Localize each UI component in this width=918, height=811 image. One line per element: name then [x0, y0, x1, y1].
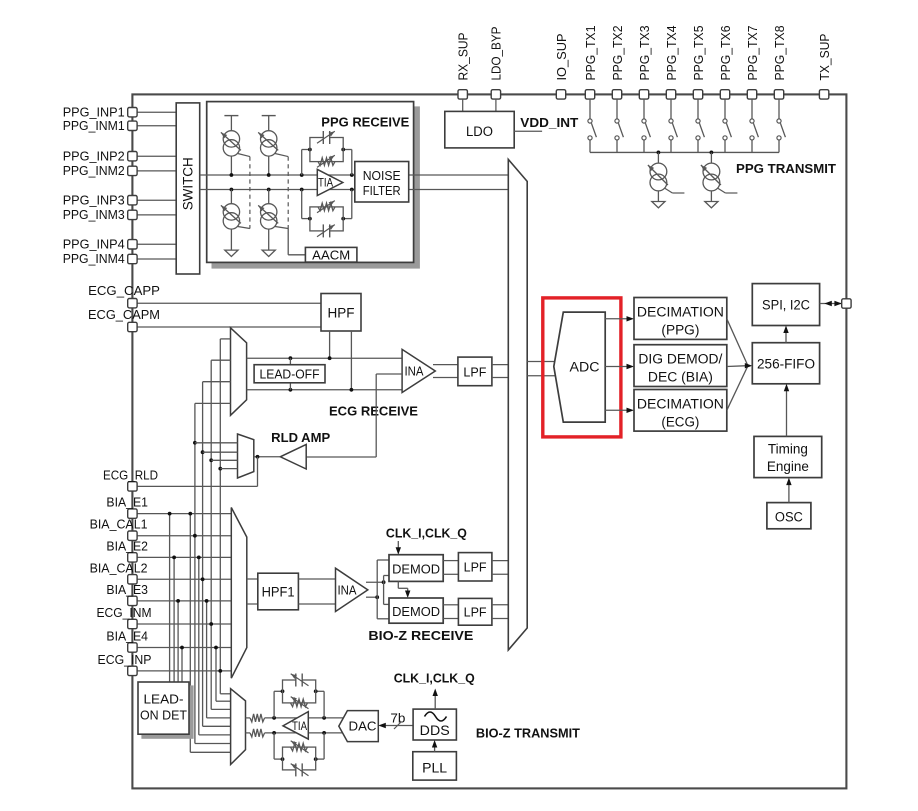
node junction P [230, 173, 234, 177]
switch PPG_TX4 [670, 99, 672, 119]
pin IO_SUP [556, 90, 565, 99]
capacitor variable Ca [296, 674, 302, 687]
wire TX line a2 [265, 717, 344, 719]
node junction P [267, 173, 271, 177]
node LEADOFF-M [289, 388, 293, 392]
wire bus to LED current source [657, 152, 659, 163]
pin TX_SUP [819, 90, 828, 99]
op-amp RLD AMP [280, 444, 306, 469]
current source PPG input bottom [261, 204, 277, 220]
wire stub to BIOZ TX mux [216, 700, 231, 702]
svg-text:PLL: PLL [422, 761, 448, 776]
svg-text:DECIMATION: DECIMATION [637, 397, 724, 412]
wire stub to BIOZ TX mux [220, 693, 230, 695]
node TIA in a [272, 716, 276, 720]
svg-text:BIO-Z RECEIVE: BIO-Z RECEIVE [368, 628, 473, 643]
wire interconnect column [219, 339, 221, 694]
resistor variable Rf M [318, 203, 335, 211]
svg-text:BIA_E2: BIA_E2 [106, 538, 148, 553]
wire PPG transmit bus [590, 151, 779, 153]
current source tail [238, 227, 250, 229]
wire PPG_INP4 to switch [137, 243, 177, 245]
capacitor variable Cf M [323, 224, 329, 237]
node RLD tap [209, 458, 213, 462]
wire ECG line P [247, 357, 403, 359]
block Timing Engine [754, 436, 822, 477]
pin PPG_TX8 [774, 90, 783, 99]
svg-text:ECG RECEIVE: ECG RECEIVE [329, 404, 418, 419]
node [176, 599, 180, 603]
wire bottom source to ground [230, 229, 232, 250]
node [214, 646, 218, 650]
feedback network P frame [310, 138, 343, 162]
ground [652, 202, 665, 208]
resistor isolation Rb [250, 729, 265, 737]
ground [225, 250, 238, 256]
node TIA input P [300, 173, 304, 177]
wire stub to ECG mux [195, 402, 231, 404]
generator DDS [413, 709, 456, 740]
wire PPG_INP1 to switch [137, 111, 177, 113]
current source tail [238, 154, 250, 157]
wire BIA_E2 row [137, 556, 232, 558]
wire DEC ECG to FIFO [727, 367, 748, 411]
demodulator DEMOD I [389, 555, 443, 582]
wire fb left a [273, 691, 275, 718]
wire stub to RLD mux [203, 451, 238, 453]
wire PLL to DDS [434, 744, 436, 751]
wire stub to BIOZ TX mux [211, 708, 230, 710]
node [168, 512, 172, 516]
svg-text:(PPG): (PPG) [661, 323, 699, 338]
svg-text:BIA_E3: BIA_E3 [106, 582, 148, 597]
node junction M [230, 188, 234, 192]
filter DECIMATION (ECG) [634, 390, 727, 432]
mux BIA input [231, 508, 247, 679]
svg-text:PPG_TX6: PPG_TX6 [718, 26, 733, 81]
wire stub to ECG mux [211, 359, 230, 361]
svg-text:TIA: TIA [292, 719, 307, 733]
wire stub to BIOZ TX mux [190, 751, 230, 753]
wire mux to HPF1 a [247, 578, 258, 580]
wire INA out top [366, 581, 384, 583]
node out bot [375, 595, 379, 599]
current source PPG LED driver [650, 163, 667, 180]
wire ECG_INM row [137, 623, 232, 625]
node TIA in b [272, 731, 276, 735]
pin BIA_E3 [128, 596, 137, 605]
svg-text:PPG_INM2: PPG_INM2 [63, 163, 125, 178]
wire BIA_E1 row [137, 513, 232, 515]
svg-text:PPG_TX3: PPG_TX3 [637, 26, 652, 81]
wire electrode to lead-on det [177, 601, 179, 682]
node RLD tap [201, 450, 205, 454]
converter ADC [554, 312, 605, 422]
node TIA output P [350, 173, 354, 177]
svg-text:BIA_CAL1: BIA_CAL1 [90, 517, 148, 532]
resistor variable Rf P [318, 158, 335, 166]
wire mux to HPF1 b [247, 603, 258, 605]
switch PPG_TX2 [616, 99, 618, 119]
pin PPG_TX2 [612, 90, 621, 99]
switch PPG_TX3 [643, 99, 645, 119]
wire PPG_INP2 to switch [137, 155, 177, 157]
op-amp TIA (PPG) [317, 169, 343, 195]
filter LPF (ECG) [458, 357, 492, 386]
wire mux-ADC b [527, 375, 556, 377]
node [205, 599, 209, 603]
memory 256-FIFO [752, 343, 819, 384]
wire fb left b [273, 733, 275, 759]
current source PPG LED driver [703, 163, 720, 180]
detector LEAD-ON DET shadow [142, 686, 193, 738]
wire split B [383, 576, 385, 605]
mux ADC input [508, 159, 527, 650]
svg-text:ADC: ADC [570, 360, 600, 375]
wire source to line [230, 156, 232, 175]
wire bottom source to ground [268, 229, 270, 250]
wire ECG line M [247, 389, 403, 391]
regulator LDO [445, 111, 514, 147]
pin PPG_TX4 [666, 90, 675, 99]
wire TX line a [246, 717, 251, 719]
svg-text:LDO: LDO [466, 124, 493, 139]
svg-text:LPF: LPF [464, 560, 487, 575]
svg-text:BIO-Z TRANSMIT: BIO-Z TRANSMIT [476, 726, 580, 741]
node TIA out a [322, 716, 326, 720]
resistor variable Ra fb [291, 699, 308, 707]
filter LPF (BIA Q) [458, 598, 492, 625]
wire DEC PPG to FIFO [727, 319, 748, 365]
wire DDS to DAC [384, 725, 413, 727]
node fb M right [341, 217, 345, 221]
pll PLL [413, 752, 457, 780]
node fb M left [308, 217, 312, 221]
svg-text:BIA_E1: BIA_E1 [106, 495, 148, 510]
filter DIG DEMOD/DEC (BIA) [634, 345, 727, 387]
current source PPG input top [223, 131, 239, 147]
pin RX_SUP [458, 90, 467, 99]
svg-text:BIA_E4: BIA_E4 [106, 629, 148, 644]
svg-text:PPG_INP3: PPG_INP3 [63, 192, 125, 207]
arrow into FIFO [745, 363, 753, 368]
svg-text:ECG_INP: ECG_INP [98, 652, 152, 667]
wire electrode to lead-on det [169, 514, 171, 682]
svg-text:RX_SUP: RX_SUP [456, 33, 471, 81]
wire TX line b2 [265, 732, 344, 734]
wire ADC-DEC PPG [605, 318, 629, 320]
node RLD tap [193, 441, 197, 445]
pin ECG_INP [128, 666, 137, 675]
wire RX_SUP to LDO [462, 99, 464, 111]
svg-text:LEAD-: LEAD- [144, 692, 184, 707]
filter DECIMATION (PPG) [634, 298, 727, 340]
ground [262, 250, 275, 256]
svg-text:PPG_INM1: PPG_INM1 [63, 118, 125, 133]
pin PPG_TX1 [585, 90, 594, 99]
wire PPG signal line P [200, 174, 509, 176]
svg-text:INA: INA [338, 583, 358, 597]
wire DEMOD2-LPF b [443, 618, 458, 620]
wire DEMOD1-LPF a [443, 560, 458, 562]
pin PPG_INM3 [128, 210, 137, 219]
wire INA out bot [366, 596, 377, 598]
wire source to ground [710, 192, 712, 202]
supply T-bar [224, 115, 238, 117]
node TIA output M [350, 188, 354, 192]
wire feedback left M [301, 190, 303, 219]
node bus junction [657, 151, 661, 155]
wire source to ground [657, 192, 659, 202]
pin BIA_E1 [128, 509, 137, 518]
wire mux-ADC a [527, 361, 556, 363]
wire split A [376, 560, 378, 619]
svg-text:Engine: Engine [767, 459, 809, 474]
wire ADC-DEC ECG [605, 409, 629, 411]
capacitor variable Cb [296, 763, 302, 776]
wire BIA_CAL1 row [137, 535, 232, 537]
svg-text:LPF: LPF [463, 364, 486, 379]
node [209, 622, 213, 626]
node out top [382, 580, 386, 584]
wire DEMOD BIA to FIFO [727, 365, 748, 368]
node fb P left [308, 148, 312, 152]
svg-text:VDD_INT: VDD_INT [520, 115, 578, 130]
svg-text:ECG_CAPM: ECG_CAPM [88, 307, 160, 322]
svg-text:ECG_CAPP: ECG_CAPP [88, 283, 160, 298]
pin BIA_CAL2 [128, 575, 137, 584]
wire feedback right P [351, 150, 353, 176]
node fb P right [341, 148, 345, 152]
wire interconnect column [210, 360, 212, 709]
node RLD junction [256, 455, 260, 459]
svg-text:FILTER: FILTER [363, 183, 401, 198]
supply T-bar [262, 115, 276, 117]
wire LPF-mux d [492, 618, 508, 620]
svg-text:PPG_INM3: PPG_INM3 [63, 207, 125, 222]
node TIA out b [322, 731, 326, 735]
filter HPF [321, 294, 361, 332]
wire LDO_BYP to LDO [495, 99, 497, 111]
current source tail [275, 154, 288, 157]
wire to DEMOD1 in2 [384, 575, 389, 577]
svg-text:HPF1: HPF1 [262, 585, 295, 600]
filter HPF1 [258, 573, 299, 610]
wire ECG_INP row [137, 670, 232, 672]
wire LPF to mux 1 [492, 364, 508, 366]
svg-text:OSC: OSC [775, 510, 803, 525]
wire RLD to pin [257, 457, 259, 487]
svg-text:ECG_RLD: ECG_RLD [103, 467, 158, 482]
pin PPG_INP3 [128, 196, 137, 205]
svg-text:NOISE: NOISE [363, 168, 401, 183]
wire RLD amp out [254, 456, 280, 458]
outer chip boundary [132, 94, 846, 788]
wire line to bottom source [268, 190, 270, 204]
svg-text:DEC (BIA): DEC (BIA) [648, 370, 713, 385]
capacitor variable Cf P [323, 131, 329, 144]
wire to DEMOD2 in1 [384, 603, 389, 605]
wire stub to BIOZ TX mux [195, 743, 231, 745]
wire DEMOD1-LPF b [443, 573, 458, 575]
svg-text:PPG_TX7: PPG_TX7 [745, 26, 760, 81]
wire interconnect column [206, 601, 208, 718]
svg-text:BIA_CAL2: BIA_CAL2 [90, 560, 148, 575]
pin SPI/I2C (right) [842, 299, 851, 308]
node LEADOFF-P [289, 356, 293, 360]
svg-text:DECIMATION: DECIMATION [637, 305, 724, 320]
node RLD tap [218, 467, 222, 471]
demodulator DEMOD Q [389, 598, 443, 623]
wire DEMOD2-LPF a [443, 604, 458, 606]
switch PPG_TX5 [697, 99, 699, 119]
pin LDO_BYP [491, 90, 500, 99]
wire stub to RLD mux [195, 442, 238, 444]
wire demod chain arrow [397, 581, 399, 588]
switch PPG_TX7 [751, 99, 753, 119]
ground [705, 202, 718, 208]
wire stub to BIOZ TX mux [203, 725, 231, 727]
current source adjust tail [717, 188, 725, 193]
PPG receive block shadow [212, 107, 419, 268]
svg-text:IO_SUP: IO_SUP [554, 34, 569, 81]
svg-text:DAC: DAC [349, 720, 377, 734]
analog switch block SWITCH [176, 103, 200, 274]
node [172, 556, 176, 560]
ambient canceller AACM [305, 247, 357, 262]
wire ADC-DEMOD BIA [605, 366, 629, 368]
wire RLD tap [376, 373, 402, 375]
svg-text:PPG TRANSMIT: PPG TRANSMIT [736, 161, 836, 176]
wire LPF-mux c [492, 604, 508, 606]
wire VDD_INT output [514, 130, 542, 132]
op-amp INA (ECG) [402, 349, 435, 392]
wire DDS clk out [434, 693, 436, 710]
wire LPF-mux b [492, 573, 508, 575]
pin PPG_INP1 [128, 108, 137, 117]
current source PPG input top [261, 131, 277, 147]
svg-text:HPF: HPF [328, 305, 355, 320]
wire interconnect column [198, 557, 200, 735]
pin BIA_E2 [128, 553, 137, 562]
pin ECG_CAPP [128, 299, 137, 308]
op-amp TIA (BIOZ) [283, 712, 308, 740]
mux RLD input [238, 434, 254, 478]
svg-text:DDS: DDS [420, 723, 450, 738]
wire stub to BIOZ TX mux [199, 734, 231, 736]
switch PPG_TX1 [589, 99, 591, 119]
interface SPI, I2C [752, 284, 819, 326]
wire BIA_E3 row [137, 600, 232, 602]
converter DAC [339, 711, 379, 742]
pin PPG_TX7 [747, 90, 756, 99]
switch PPG_TX6 [724, 99, 726, 119]
wire PPG_INM3 to switch [137, 214, 177, 216]
wire Timing to FIFO [786, 388, 788, 436]
detector LEAD-ON DET [138, 682, 189, 734]
pin PPG_TX3 [639, 90, 648, 99]
wire source to line [268, 156, 270, 175]
svg-text:DIG DEMOD/: DIG DEMOD/ [638, 352, 722, 367]
node HPF-M [350, 388, 354, 392]
wire LPF-mux a [492, 560, 508, 562]
wire interconnect column [215, 648, 217, 702]
wire stub to BIOZ TX mux [207, 717, 231, 719]
wire electrode to lead-on det [181, 648, 183, 683]
filter LPF (BIA I) [458, 553, 492, 581]
svg-text:PPG_INM4: PPG_INM4 [63, 251, 125, 266]
wire leadoff stubs [289, 358, 291, 365]
node fb b R [314, 757, 318, 761]
wire ECG_CAPP to HPF [137, 302, 321, 304]
resistor isolation Ra [250, 714, 265, 722]
svg-text:DEMOD: DEMOD [392, 562, 440, 577]
wire INA out 1 [433, 364, 458, 366]
svg-text:7b: 7b [390, 712, 405, 726]
wire feedback right M [351, 190, 353, 219]
svg-text:PPG_TX2: PPG_TX2 [610, 26, 625, 81]
svg-text:(ECG): (ECG) [661, 415, 699, 430]
node fb b L [281, 757, 285, 761]
wire BIA_E4 row [137, 647, 232, 649]
switch PPG_TX8 [778, 99, 780, 119]
svg-text:PPG_TX8: PPG_TX8 [772, 26, 787, 81]
svg-text:DEMOD: DEMOD [392, 604, 440, 619]
wire PPG signal line M [200, 189, 509, 191]
wire INA out 2 [433, 377, 458, 379]
wire fb right b [323, 733, 325, 759]
wire interconnect column [194, 403, 196, 743]
node bus junction [710, 151, 714, 155]
pin ECG_RLD [128, 482, 137, 491]
wire LPF to mux 2 [492, 377, 508, 379]
feedback frame b [283, 747, 316, 770]
mux BIOZ TX [231, 689, 246, 765]
wire OSC to Timing [788, 482, 790, 503]
wire stub to RLD mux [211, 459, 237, 461]
node [193, 534, 197, 538]
node [218, 669, 222, 673]
resistor variable Rb fb [291, 743, 308, 751]
wire stub to ECG mux [220, 338, 230, 340]
svg-text:PPG RECEIVE: PPG RECEIVE [321, 115, 409, 130]
wire interconnect column [189, 514, 191, 753]
wire PPG_INM1 to switch [137, 125, 177, 127]
svg-text:LDO_BYP: LDO_BYP [489, 27, 504, 81]
svg-text:ECG_INM: ECG_INM [97, 605, 152, 620]
wire TX line b [246, 732, 251, 734]
feedback network M frame [310, 207, 343, 231]
svg-text:PPG_TX1: PPG_TX1 [583, 26, 598, 81]
highlight red box [543, 298, 621, 437]
pin PPG_TX6 [720, 90, 729, 99]
wire fb right a [323, 691, 325, 718]
wire to DEMOD2 in2 [377, 618, 389, 620]
node junction M [267, 188, 271, 192]
node [188, 512, 192, 516]
PPG receive block frame [207, 102, 414, 263]
pin ECG_CAPM [128, 322, 137, 331]
svg-text:ON DET: ON DET [140, 708, 187, 723]
op-amp INA (BIA) [336, 568, 368, 611]
wire PPG_INM4 to switch [137, 258, 177, 260]
wire stub to ECG mux [203, 381, 231, 383]
wire PPG_INP3 to switch [137, 199, 177, 201]
svg-text:256-FIFO: 256-FIFO [757, 357, 815, 372]
svg-text:TIA: TIA [318, 176, 333, 190]
wire AACM control [287, 229, 289, 255]
node fb a R [314, 689, 318, 693]
